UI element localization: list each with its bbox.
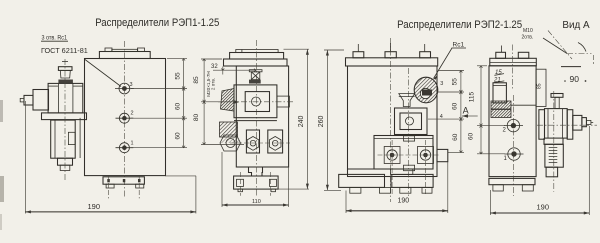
fig3 dim 190 [345,191,347,214]
fig4 dim 190 [489,190,491,215]
fig2 body [236,66,288,167]
fig2 right dim 240 [284,48,310,50]
svg-text:85: 85 [193,76,200,84]
fig3 hatched boss [414,77,438,103]
svg-text:60: 60 [174,103,181,111]
fig3 port right [418,147,434,164]
fig2 flange [230,53,284,60]
fig3 right tab [437,149,448,161]
svg-text:190: 190 [398,197,410,204]
svg-text:Вид А: Вид А [562,19,589,31]
fig2 left lower boss [220,122,238,137]
fig4 solenoid left plate [539,110,545,140]
fig3 pilot box [395,108,428,135]
fig4 flange [490,58,537,66]
fig2 solenoid circle [252,97,261,106]
fig4 port 1 [508,148,520,160]
fig3 pilot centerline [408,68,410,196]
fig1 right dim line [183,59,185,148]
fig3 flange [346,58,438,66]
fig4 spool rect [493,83,506,103]
fig4 connector [573,115,582,130]
fig3 right dim column [438,70,464,72]
fig1 port 2 [119,113,129,123]
fig1 foot centerlines [108,176,110,198]
fig1 foot [103,177,144,184]
fig2 left upper boss [221,89,235,112]
fig4 port 2 [507,119,519,131]
fig4 top bolts [496,52,506,58]
fig2 collar [224,59,288,66]
svg-text:60: 60 [452,133,459,141]
fig1 body [85,59,166,176]
svg-text:32: 32 [211,64,218,70]
svg-text:240: 240 [298,115,305,127]
fig1 flange bumps [105,48,112,52]
fig2 solenoid box [234,85,277,118]
svg-text:Распределители РЭП1-1.25: Распределители РЭП1-1.25 [95,17,219,29]
svg-text:Rc1: Rc1 [453,42,465,49]
fig4 lower nut [546,167,558,177]
svg-text:60: 60 [174,132,181,140]
fig3 port left [384,147,400,164]
fig1 port 3 [119,83,130,94]
svg-text:60: 60 [467,133,474,141]
fig2 dim 32 [213,69,256,71]
fig1 centerline [123,41,125,198]
fig2 centerline [255,40,257,196]
fig2 neck [249,167,263,176]
90 degree symbol [548,31,572,60]
fig1 dim 190 [25,211,196,213]
scan specks left edge [0,100,3,122]
fig4 left dim column [477,65,487,67]
fig4 body [489,66,536,177]
fig2 left dim extensions [201,58,222,60]
svg-text:2 отв.: 2 отв. [211,78,216,90]
fig1 solenoid cylinder [48,83,83,113]
svg-text:60: 60 [452,102,459,110]
fig1 solenoid cap stem [62,61,68,63]
svg-text:115: 115 [469,91,476,102]
fig3 body [348,66,438,177]
svg-text:190: 190 [537,203,550,212]
fig2 base plate [234,176,279,189]
svg-text:190: 190 [88,202,101,211]
fig1 solenoid cap [58,67,72,71]
fig4 lower box with spring [545,144,563,167]
fig2 right tab [277,96,290,107]
fig3 centerline main [390,38,392,202]
svg-text:110: 110 [252,199,261,205]
fig1 solenoid flange [42,113,87,120]
svg-text:55: 55 [174,72,181,80]
fig4 bracket below solenoid [544,138,563,144]
fig1 bottom box [58,158,73,165]
fig4 centerline [512,45,514,91]
fig3 port centerline [378,154,441,156]
fig3 funnel [399,94,415,107]
fig1 top flange [99,52,150,59]
fig1 lower box [51,120,75,158]
svg-text:55: 55 [452,78,459,86]
svg-text:90: 90 [570,74,580,84]
svg-text:80: 80 [193,114,200,122]
fig4 base plate [489,178,535,184]
fig2 base centerlines [239,172,241,196]
fig1 connector [33,90,49,111]
fig3 left dim 260 [324,49,344,51]
fig4 T handle [551,94,563,98]
fig4 hatched band lower [491,110,511,118]
fig1 port 1 [119,143,129,153]
fig1 right dim extensions [167,58,187,60]
fig4 hatched band upper [491,101,511,109]
svg-text:А: А [463,105,469,115]
svg-text:2: 2 [503,128,507,134]
fig4 solenoid box [545,109,568,139]
svg-text:260: 260 [318,115,325,127]
svg-text:3: 3 [440,81,443,87]
fig4 solenoid centerline [553,91,555,192]
fig2 left dim line [203,59,205,145]
svg-text:Распределители РЭП2-1.25: Распределители РЭП2-1.25 [397,19,522,31]
fig4 small dim 85 [536,69,546,106]
fig3 top bolts [353,52,364,58]
fig3 lower block [374,136,433,170]
svg-text:1: 1 [504,156,508,162]
fig2 centerline horizontals [218,101,294,103]
fig1 solenoid centerline [64,59,66,182]
fig2 bump plate [236,50,278,53]
fig2 dim 110 [221,152,223,207]
svg-text:М10: М10 [523,28,533,34]
svg-text:85: 85 [537,83,543,89]
svg-text:2отв.: 2отв. [522,35,534,41]
fig1 bottom ext lines [24,101,26,214]
svg-text:2: 2 [131,111,134,117]
svg-text:ГОСТ 6211-81: ГОСТ 6211-81 [41,48,88,55]
fig2 cap [249,70,262,72]
fig4 solenoid right plate [567,110,573,140]
fig2 hex boss right [268,130,283,153]
svg-text:3 отв. Rc1: 3 отв. Rc1 [42,35,68,42]
svg-text:1: 1 [131,141,134,147]
fig3 base [339,174,385,187]
svg-text:3: 3 [130,82,133,88]
fig2 hex boss left [246,130,259,153]
fig1 diagonal leader [85,60,121,87]
